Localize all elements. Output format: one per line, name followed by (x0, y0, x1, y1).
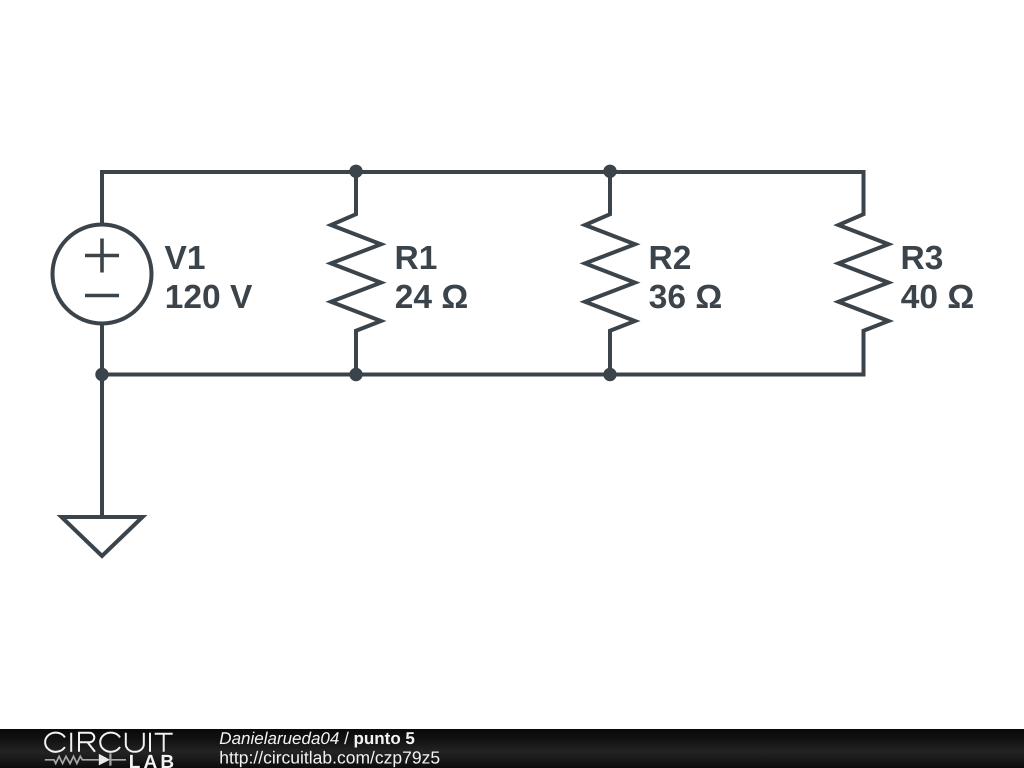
logo letter I (70, 733, 72, 752)
svg-text:24 Ω: 24 Ω (395, 279, 468, 316)
credit lines (0, 729, 560, 768)
svg-text:R3: R3 (901, 240, 944, 277)
svg-text:R1: R1 (395, 240, 438, 277)
wire ground lead (100, 375, 104, 518)
logo resistor squiggle and diode (45, 753, 126, 765)
resistor R2 (585, 172, 635, 375)
svg-text:36 Ω: 36 Ω (649, 279, 722, 316)
svg-text:R2: R2 (649, 240, 692, 277)
svg-text:120 V: 120 V (165, 279, 253, 316)
logo letter C (100, 733, 120, 752)
node junction top R1 (349, 165, 362, 178)
wire bottom rail (102, 373, 866, 377)
node junction top R2 (603, 165, 616, 178)
logo letter U (126, 733, 144, 752)
logo diode triangle (99, 754, 110, 766)
node junction bottom R2 (603, 368, 616, 381)
node junction bottom R1 (349, 368, 362, 381)
logo letter R (79, 733, 95, 752)
CircuitLab logo (0, 729, 190, 768)
node junction bottom V1 (95, 368, 108, 381)
svg-text:40 Ω: 40 Ω (901, 279, 974, 316)
resistor R1 (331, 172, 381, 375)
ground symbol (62, 517, 143, 556)
resistor R3 (839, 172, 889, 375)
svg-text:V1: V1 (165, 240, 206, 277)
V1 plus sign (85, 239, 119, 273)
voltage source V1 (53, 225, 152, 324)
svg-text:http://circuitlab.com/czp79z5: http://circuitlab.com/czp79z5 (219, 748, 440, 768)
logo letter T (155, 734, 173, 752)
wire top rail (102, 172, 866, 226)
svg-text:Danielarueda04 / punto 5: Danielarueda04 / punto 5 (219, 729, 415, 748)
logo letter C (45, 733, 65, 752)
logo letter I (149, 733, 151, 752)
wire V1 bottom lead (100, 322, 104, 375)
V1 minus sign (85, 294, 119, 298)
footer bar (0, 729, 1024, 768)
